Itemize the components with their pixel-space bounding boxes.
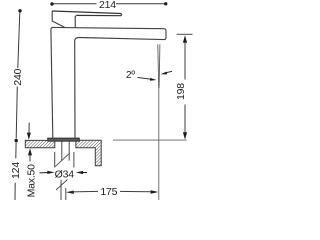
dimension O34 extension line right xyxy=(73,152,75,168)
svg-text:Ø34: Ø34 xyxy=(55,168,75,180)
lever handle back and chamfer xyxy=(52,11,64,27)
svg-text:124: 124 xyxy=(10,162,22,179)
dimension 198 top arrow xyxy=(183,35,187,42)
spout top edge and tip xyxy=(51,27,166,137)
dimension O34 right arrow xyxy=(76,171,87,174)
dimension 198 outlet extension line xyxy=(177,33,193,35)
dimension 240 bottom dot xyxy=(15,139,18,142)
dimension 175 right arrow xyxy=(151,190,159,193)
shank break slash xyxy=(55,153,69,167)
dimension 198 line upper xyxy=(184,42,186,80)
dimension 175 left arrow xyxy=(66,191,74,194)
svg-text:2º: 2º xyxy=(126,70,135,81)
countertop right section (L shaped) xyxy=(76,140,101,166)
dimension 214 top line xyxy=(54,3,165,5)
dimension 240 line upper xyxy=(18,12,20,68)
dimension 240 top dot xyxy=(18,9,21,12)
dimension 198 line lower xyxy=(184,105,186,134)
dimension 240 line lower xyxy=(16,87,17,139)
lever handle blade xyxy=(52,11,121,16)
2 degree left arrow xyxy=(138,77,157,80)
faucet body and spout outline xyxy=(51,27,166,137)
dimension 175 line right xyxy=(120,190,151,192)
shank lower break slash xyxy=(56,180,68,191)
countertop left section xyxy=(25,140,55,147)
base flange xyxy=(48,138,80,141)
2 degree right arrow xyxy=(161,71,172,74)
dimension 175 line left xyxy=(73,190,99,193)
water stream extension line xyxy=(158,88,160,200)
shank lower left line xyxy=(60,180,62,200)
dimension 198 bottom arrow xyxy=(183,132,187,139)
dimension O34 extension line left xyxy=(54,152,56,168)
faucet centerline extension for 175 xyxy=(65,188,67,200)
svg-text:240: 240 xyxy=(12,68,24,85)
svg-text:175: 175 xyxy=(100,186,117,198)
svg-text:Max.50: Max.50 xyxy=(26,164,38,198)
svg-text:198: 198 xyxy=(175,83,187,100)
dimension 214 left dot xyxy=(50,2,53,5)
dimension O34 left arrow xyxy=(40,171,55,174)
Max.50 top arrow xyxy=(27,133,31,140)
threaded shank lines xyxy=(62,141,69,160)
svg-text:214: 214 xyxy=(99,0,116,11)
Max.50 bottom arrow xyxy=(28,148,32,155)
dimension 124 line upper xyxy=(15,142,17,158)
water stream 2 deg lines xyxy=(158,44,160,88)
dimension 214 right dot xyxy=(164,2,167,5)
dimension 124 line lower xyxy=(14,183,16,200)
cartridge housing front edge xyxy=(75,16,76,28)
deck level reference line right xyxy=(113,139,187,141)
